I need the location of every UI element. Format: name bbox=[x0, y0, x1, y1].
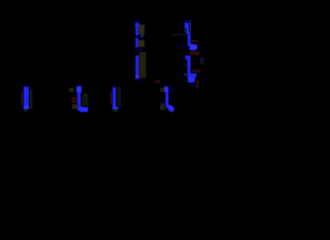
resistor R1 bbox=[113, 86, 119, 110]
diode D3 bbox=[77, 85, 82, 108]
wire (stub below C2) bbox=[137, 79, 142, 82]
diode D2 bbox=[185, 56, 190, 75]
value label for D1 (red) bbox=[191, 40, 198, 42]
attribute text above D4 (red) bbox=[154, 80, 160, 83]
value label of D3 (yellow) bbox=[72, 104, 78, 109]
value label of D4 (yellow) bbox=[160, 103, 165, 110]
component outline R1 (green) bbox=[117, 87, 121, 107]
reference label D2 (red) bbox=[190, 51, 200, 55]
attribute text right of D3 (yellow) bbox=[83, 94, 88, 97]
capacitor C1 bbox=[135, 21, 143, 48]
voltage source V1 bbox=[24, 86, 30, 110]
pin label of R1 (red) bbox=[110, 92, 112, 104]
arrowhead of D3 bbox=[77, 107, 88, 113]
value label for V1 (yellow) bbox=[30, 89, 33, 109]
wire (faint tail below D2) bbox=[189, 84, 198, 88]
arrowhead of D1 bbox=[190, 44, 198, 51]
component outline D1 (green) bbox=[184, 30, 187, 33]
pin 2 of D2 (purple smudge) bbox=[184, 73, 187, 76]
wire (horizontal at D2 cathode) bbox=[188, 74, 197, 77]
attribute text right of D2 (purple) bbox=[200, 57, 204, 64]
diode D4 bbox=[164, 86, 169, 109]
wire (faint stub right of D4 top) bbox=[169, 89, 175, 92]
wire (left stub at D1 anode) bbox=[177, 46, 186, 48]
ground bbox=[114, 110, 118, 112]
attribute text above output wire (red) bbox=[192, 70, 202, 73]
component outline D2 (green) bbox=[185, 64, 187, 68]
arrowhead of D2 bbox=[188, 76, 196, 83]
component outline D3 (green) bbox=[82, 97, 89, 106]
arrowhead of D4 bbox=[168, 105, 175, 113]
node A (faint blue dot left of D4) bbox=[160, 102, 163, 105]
pin 1 of D1 bbox=[190, 20, 192, 32]
reference label D3 (yellow) bbox=[69, 88, 74, 92]
diode D1 bbox=[185, 21, 191, 47]
reference label V1 (gray) bbox=[21, 92, 24, 106]
component outline V1 bottom (green) bbox=[24, 110, 27, 112]
wire (faint horizontal at node) bbox=[172, 34, 188, 35]
reference label D4 (yellow) bbox=[160, 88, 164, 92]
pin label of D3 (red) bbox=[72, 97, 77, 103]
value label for C2 bbox=[139, 52, 146, 78]
value label 10u for C1 bbox=[139, 25, 145, 48]
value label right of D2 (red) bbox=[196, 80, 199, 88]
node N1 (junction between C1 and C2) bbox=[135, 48, 142, 52]
capacitor C2 bbox=[136, 56, 140, 80]
